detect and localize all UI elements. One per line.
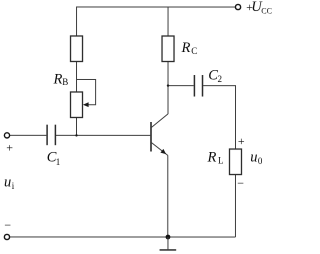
rheostat wiper arrow into RB2 bbox=[83, 102, 89, 107]
transistor Q1 bbox=[151, 114, 168, 156]
wire top stub to RC bbox=[167, 7, 169, 36]
svg-text:−: − bbox=[4, 218, 11, 232]
input terminal (bottom) bbox=[4, 234, 9, 239]
svg-text:C: C bbox=[191, 46, 197, 56]
resistor RC bbox=[162, 36, 174, 62]
wire bottom rail bbox=[10, 236, 236, 238]
wire RB2 to base node bbox=[75, 117, 77, 135]
terminal +Ucc bbox=[235, 4, 240, 9]
wire C1 to base bbox=[56, 134, 150, 136]
junction dot at base node bbox=[75, 134, 77, 136]
svg-text:+: + bbox=[238, 134, 245, 148]
wire top rail bbox=[77, 7, 236, 36]
resistor RL bbox=[229, 149, 241, 175]
wire emitter to bottom rail bbox=[167, 155, 169, 237]
capacitor C2 bbox=[194, 75, 202, 97]
svg-text:i: i bbox=[12, 181, 15, 191]
wire between RB1 and RB2 bbox=[76, 61, 78, 91]
resistor RB1 (upper bias resistor) bbox=[71, 36, 83, 62]
wire RL to bottom rail bbox=[234, 175, 236, 237]
wire input terminal to C1 bbox=[10, 134, 47, 136]
wire RC to collector bbox=[167, 62, 169, 115]
wire rheostat feedback loop bbox=[77, 79, 96, 104]
input terminal (top) bbox=[4, 133, 9, 138]
svg-text:u: u bbox=[250, 150, 257, 166]
svg-text:u: u bbox=[4, 174, 11, 190]
ground bbox=[160, 237, 177, 250]
capacitor C1 bbox=[47, 125, 55, 146]
wire C2 to output branch bbox=[203, 86, 235, 149]
svg-text:1: 1 bbox=[56, 157, 61, 167]
resistor RB2 (adjustable bias resistor) bbox=[71, 92, 83, 118]
wire collector node to C2 bbox=[168, 85, 194, 87]
svg-text:+: + bbox=[6, 141, 13, 155]
svg-text:−: − bbox=[237, 176, 244, 190]
svg-text:B: B bbox=[62, 77, 68, 87]
svg-text:0: 0 bbox=[258, 156, 263, 166]
junction dot at emitter/ground bbox=[166, 235, 171, 240]
junction dot at collector node bbox=[167, 84, 169, 86]
svg-text:R: R bbox=[206, 150, 216, 166]
svg-text:CC: CC bbox=[261, 6, 272, 15]
svg-text:2: 2 bbox=[218, 74, 223, 84]
svg-text:R: R bbox=[53, 71, 63, 87]
svg-text:L: L bbox=[218, 156, 224, 166]
svg-text:R: R bbox=[181, 40, 191, 56]
